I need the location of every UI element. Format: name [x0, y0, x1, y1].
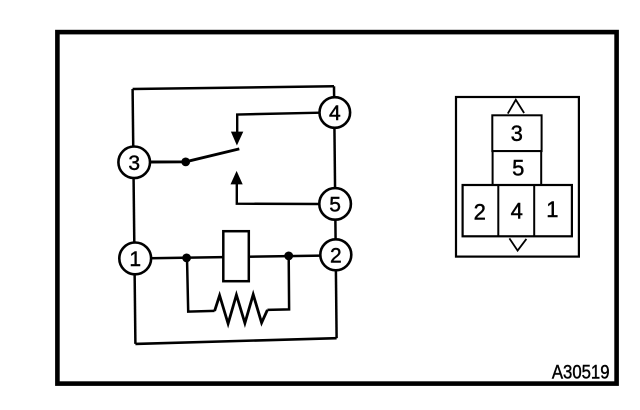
terminal 5 — [319, 188, 351, 220]
connector outline (pin layout box) — [456, 97, 579, 257]
svg-text:4: 4 — [511, 198, 523, 223]
svg-text:2: 2 — [474, 200, 486, 225]
junction dot: node A (coil left) — [182, 254, 191, 263]
contact arrow (up, NO contact) — [231, 171, 243, 185]
wire: top horizontal (3-side to 4-side) — [133, 86, 334, 89]
terminal 2 — [320, 239, 351, 270]
terminal 1 — [119, 243, 151, 275]
wire: bottom horizontal — [135, 338, 336, 344]
pin number 1 — [546, 197, 558, 222]
svg-text:1: 1 — [546, 197, 558, 222]
svg-text:3: 3 — [511, 121, 523, 146]
pin number 4 — [511, 198, 523, 223]
figure label A30519 — [552, 361, 610, 383]
svg-text:1: 1 — [129, 248, 141, 271]
wire: resistor branch right riser — [267, 256, 289, 310]
junction dot: switch pivot — [181, 158, 190, 167]
connector key arrow (top) — [508, 100, 524, 114]
wire: normally-closed contact from terminal 4 — [237, 113, 320, 135]
wire: coil branch horizontal (1 to 2) — [150, 256, 321, 259]
pin number 2 — [474, 200, 486, 225]
border frame — [57, 32, 616, 384]
contact arrow (down, NC contact) — [231, 132, 243, 146]
wire: right vertical bus (4 to 5 to 2 to bottom) — [334, 86, 337, 338]
svg-text:4: 4 — [329, 102, 341, 125]
svg-text:2: 2 — [330, 244, 342, 267]
wire: normally-open contact to terminal 5 — [237, 183, 320, 205]
svg-text:5: 5 — [512, 156, 524, 181]
wire: resistor branch left drop — [187, 258, 215, 312]
terminal 4 — [320, 97, 351, 128]
resistor (zigzag) — [215, 295, 268, 324]
pin cavity row 2-4-1 — [463, 185, 572, 236]
wire: left vertical bus (terminal 3 to terminal 1 to bottom) — [133, 89, 136, 344]
svg-text:5: 5 — [329, 194, 341, 217]
terminal 3 — [118, 147, 150, 179]
svg-text:3: 3 — [128, 152, 140, 175]
switch blade from terminal 3 — [150, 149, 239, 162]
pin cavity 5 — [493, 151, 542, 185]
pin cavity 3 — [492, 115, 541, 151]
svg-text:A30519: A30519 — [552, 361, 610, 383]
connector key arrow (bottom) — [509, 238, 526, 250]
junction dot: node B (coil right) — [284, 252, 293, 261]
relay coil L1 — [223, 231, 249, 281]
